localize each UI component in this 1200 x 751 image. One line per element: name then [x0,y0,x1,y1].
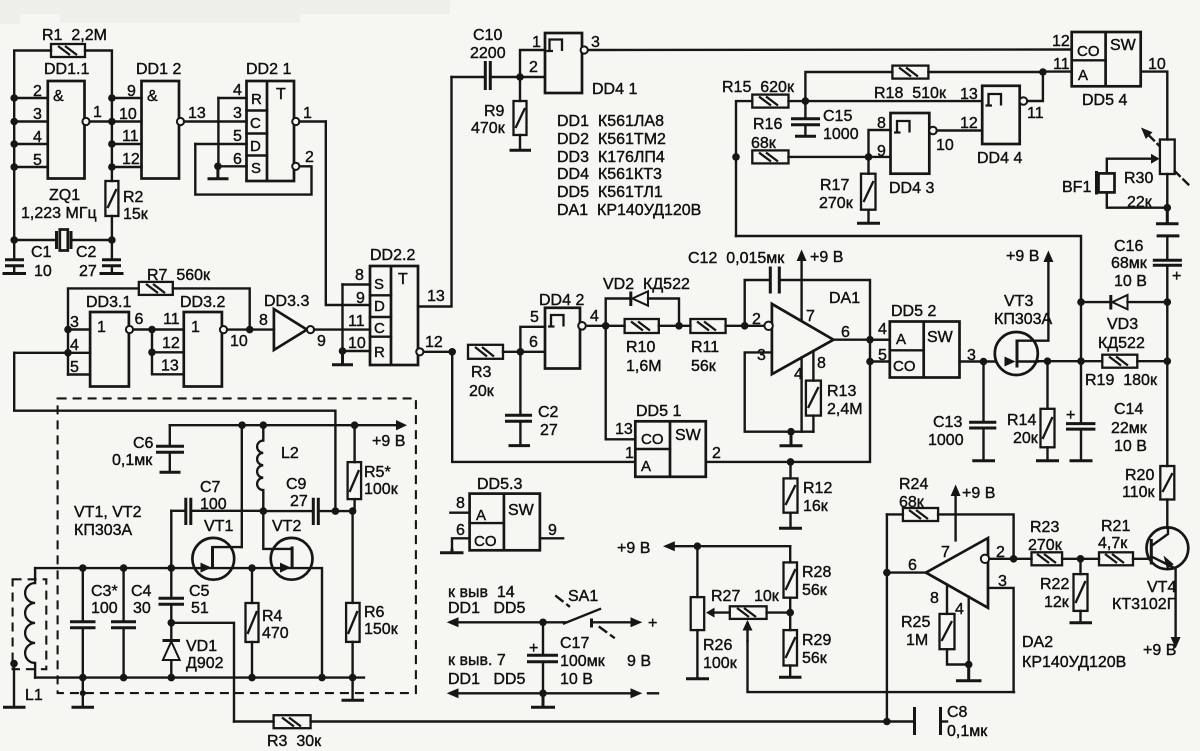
capacitor C4 [111,568,152,678]
svg-text:DD4 2: DD4 2 [539,292,584,309]
capacitor C3* [70,568,118,678]
svg-text:+: + [1172,268,1181,285]
resistor R15 [722,79,795,108]
node R27/R28/R29 [786,609,794,617]
pin 4 output DD4.2 [578,308,624,330]
ground DA2 [956,665,982,681]
svg-text:100: 100 [91,600,118,617]
svg-text:R22: R22 [1040,576,1069,593]
R30 adjust dashed arrow [1141,128,1189,186]
gate DD4.2 [539,292,584,369]
svg-text:9: 9 [877,143,886,160]
svg-text:10: 10 [34,263,52,280]
svg-text:1: 1 [93,104,102,121]
svg-text:к выв 14: к выв 14 [448,584,515,601]
node R15/C15/R18 [802,97,810,105]
svg-text:12: 12 [1052,33,1070,50]
ground DA1 [780,432,803,446]
node C13 top [980,358,988,366]
pin 10 output DD4.3 [929,127,982,154]
svg-text:3: 3 [233,105,242,122]
svg-text:R11: R11 [691,339,719,356]
pin 3 DD2.1 [233,105,242,122]
svg-text:DD5 2: DD5 2 [891,303,936,320]
svg-text:4: 4 [33,129,42,146]
svg-text:+9 В: +9 В [372,433,405,450]
svg-text:10: 10 [1148,56,1166,73]
svg-text:R7 560к: R7 560к [147,267,211,284]
pin 5 DD2.1 [195,128,246,145]
resistor R29 [779,613,831,678]
wire pin6 column [886,514,888,721]
svg-text:R5*: R5* [364,464,391,481]
wire pin4 to pin6 tie DD2.1 [217,98,219,166]
svg-text:12к: 12к [1044,594,1070,611]
svg-text:C14: C14 [1114,401,1143,418]
svg-text:C17: C17 [560,635,589,652]
switch DD5.1 [635,403,706,477]
bottom rail to C8 [311,720,915,722]
svg-text:L1: L1 [25,687,43,704]
node DD3.1 out to DD3.2 inputs [148,326,156,334]
svg-text:9: 9 [127,83,136,100]
pin 3 output DD5.2 [960,347,997,364]
svg-text:1000: 1000 [823,126,859,143]
wire oscillator feedback to DD3.1 [14,353,335,511]
pin 11 output DD4.4 [1020,72,1044,122]
capacitor C1 [3,240,52,280]
node DA2 pin6 [883,569,891,577]
svg-text:9 В: 9 В [627,653,651,670]
pin 8 DD5.3 [450,495,469,513]
wire R10 to R11 [659,325,691,327]
svg-text:КП303А: КП303А [994,311,1053,328]
switch DD5.4 [1072,32,1141,109]
svg-text:+: + [648,615,657,632]
svg-text:1: 1 [532,34,541,51]
svg-text:2,4М: 2,4М [827,401,863,418]
svg-text:КТ3102Г: КТ3102Г [1112,596,1176,613]
node dots DD1.1 inputs [10,94,18,171]
svg-text:SA1: SA1 [568,588,598,605]
potentiometer R27 [706,588,790,619]
gate DD4.1 [545,33,637,98]
capacitor C17 [527,622,651,693]
svg-text:DD1 К561ЛА8: DD1 К561ЛА8 [557,113,664,130]
resistor R2 [105,181,148,223]
node R26 top [694,542,702,550]
wire DA1 pin3 loop [745,352,814,431]
node C3 top [79,564,87,572]
pin 12 DD1.2 [112,151,142,168]
wire pin8 tie DD4.3 [869,130,891,157]
wire +9V to R28 [789,546,791,562]
svg-text:R: R [251,91,262,108]
R27 wiper arrow [743,620,1015,692]
label VT1 VT2 type [74,504,142,539]
op-amp DA2 [908,538,1126,671]
diode VD2 parallel R10 [603,276,690,326]
diode VD1 [163,623,224,678]
svg-text:VT1: VT1 [204,518,233,535]
svg-text:DD2 1: DD2 1 [246,61,291,78]
diode VD3 [1081,295,1167,352]
wire node down to DD5.1 CO [606,326,636,440]
svg-text:VD1: VD1 [186,638,217,655]
svg-text:CO: CO [893,358,916,375]
svg-text:2: 2 [752,311,761,328]
svg-text:2: 2 [529,59,538,76]
svg-text:R25: R25 [901,614,930,631]
node DA1 ground junction [787,428,795,436]
svg-text:9: 9 [356,290,365,307]
wire comparator threshold line [736,236,1081,302]
svg-text:0,1мк: 0,1мк [947,723,988,740]
pin 11 DD2.2 [348,313,365,330]
svg-text:1,223 МГц: 1,223 МГц [21,205,97,222]
svg-text:S: S [251,160,261,177]
capacitor C10 [452,27,521,90]
pin 8 DD2.2 [343,267,371,285]
resistor R1 [42,27,107,57]
capacitor C6 [112,425,184,472]
pin 9 DD1.2 [112,83,142,100]
svg-text:4: 4 [955,601,964,618]
svg-text:11: 11 [122,128,139,145]
svg-text:DD2 К561ТМ2: DD2 К561ТМ2 [557,131,666,148]
svg-text:DA1: DA1 [829,290,860,307]
svg-text:100: 100 [200,496,227,513]
flip-flop DD2.2 [370,247,418,365]
resistor R7 [139,267,211,295]
svg-text:CO: CO [1077,43,1100,60]
resistor R3 30k in bottom rail [234,715,322,750]
svg-text:R17: R17 [820,177,849,194]
svg-text:SW: SW [508,502,535,519]
resistor R4 [246,568,289,678]
svg-text:C9: C9 [286,476,307,493]
wire VD1 node to series R3 rail [171,623,234,722]
pin 1 output DD2.1 [292,105,326,125]
svg-text:10к: 10к [754,588,780,605]
svg-text:8: 8 [355,267,364,284]
svg-text:T: T [398,271,408,288]
svg-text:R30: R30 [1124,170,1153,187]
pin 13 output DD1.2 [177,105,247,125]
svg-text:9: 9 [548,522,557,539]
resistor R17 [819,157,880,223]
wire DD2.1 pin1 down to DD2.2 D [326,122,370,306]
capacitor C14 [1066,361,1148,461]
svg-text:10 В: 10 В [1114,273,1147,290]
pin 10 DD1.2 [112,106,142,123]
svg-text:ZQ1: ZQ1 [49,187,80,204]
capacitor C13 [928,362,996,461]
node crystal left [10,236,18,244]
pin 3 DD1.1 [14,106,48,123]
svg-text:КД522: КД522 [1098,335,1145,352]
svg-text:R: R [374,344,385,361]
DA2 output wire pin2 [989,558,1031,560]
svg-text:DD3.2: DD3.2 [180,294,225,311]
svg-text:13: 13 [188,105,206,122]
capacitor C16 [1111,236,1182,302]
svg-text:C4: C4 [131,583,152,600]
wire C7 left down to gate line [170,511,172,568]
capacitor C2 27 [505,352,559,446]
pin 6 DD5.3 grounded [440,522,470,553]
DA1 inverting input bubble [764,322,772,330]
svg-text:6: 6 [841,324,850,341]
svg-text:5: 5 [233,128,242,145]
svg-text:T: T [276,86,286,103]
node VD2 right [675,322,683,330]
pin 2 DD1.1 [14,83,48,100]
wire BF1 bottom to R30 bottom [1107,192,1168,207]
node S/R tie DD2.2 [339,347,347,355]
ground at DD2.2 R input [332,351,353,365]
svg-text:DD1.1: DD1.1 [44,61,89,78]
svg-text:DD5 К561ТЛ1: DD5 К561ТЛ1 [557,184,663,201]
svg-text:10: 10 [936,137,954,154]
oscillator common bottom rail [35,676,364,678]
svg-text:A: A [1078,67,1088,84]
wire R2 bottom to crystal line [111,216,113,240]
svg-text:VT1, VT2: VT1, VT2 [74,504,142,521]
pin 2 output DD2.1 loop to D [195,144,314,195]
svg-text:5: 5 [530,309,539,326]
svg-text:27: 27 [290,493,308,510]
svg-text:12: 12 [162,335,180,352]
svg-text:27: 27 [540,422,558,439]
resistor R16 [751,116,789,163]
svg-text:470к: 470к [471,120,506,137]
svg-text:1: 1 [303,105,312,122]
svg-text:DD5.3: DD5.3 [477,476,522,493]
+9V feed to divider [617,540,790,557]
svg-text:VT3: VT3 [1004,293,1033,310]
svg-text:C2: C2 [538,404,559,421]
resistor R10 [625,319,662,375]
transistor VT3 [994,248,1053,375]
switch DD5.2 [890,303,960,378]
svg-text:R18 510к: R18 510к [874,85,947,102]
svg-text:VD3: VD3 [1107,316,1138,333]
ground R30 node [1156,208,1179,224]
resistor R19 [1085,355,1158,389]
wire node to DD5.4 pin11 [1043,70,1072,72]
wire R15 right to DD4.4 pin13 [789,100,983,102]
node DD2.2 pin12 junction [448,348,456,356]
svg-text:R19 180к: R19 180к [1085,372,1158,389]
svg-text:1000: 1000 [928,432,964,449]
svg-text:DD5 1: DD5 1 [636,403,681,420]
svg-text:10: 10 [119,106,137,123]
wire tie DD3.2 inputs [152,330,184,375]
svg-text:12: 12 [122,151,140,168]
svg-text:R10: R10 [626,339,655,356]
node R5 top on rail [351,421,359,429]
DA2 inverting input bubble [981,555,989,563]
svg-text:30: 30 [133,600,151,617]
pin 9 DD5.3 [540,522,563,539]
resistor R13 [806,351,863,432]
gate DD3.2 [180,294,225,387]
resistor R14 [1007,362,1059,461]
node DA1 pin2 / C12 [741,322,749,330]
ground at DD2.1 S input [208,166,229,179]
svg-text:2: 2 [33,83,42,100]
svg-text:CO: CO [641,431,664,448]
node dots DD3.1 inputs [64,326,72,357]
svg-text:КР140УД120В: КР140УД120В [1022,654,1126,671]
svg-text:4: 4 [878,321,887,338]
ground C17 [531,693,555,707]
flip-flop DD2.1 [246,61,294,181]
node C17 plus [539,619,547,627]
node VD1 bottom [168,674,176,682]
switch DD5.3 [470,476,540,550]
svg-text:1: 1 [97,319,106,336]
svg-text:1: 1 [625,445,634,462]
switch SA1 dashed handle [556,588,614,638]
node C17 minus [539,690,547,698]
svg-text:10: 10 [348,335,366,352]
svg-text:R20: R20 [1125,467,1154,484]
resistor R18 [805,66,1043,102]
capacitor C7 [171,479,263,525]
svg-text:R15 620к: R15 620к [722,79,795,96]
node C4 top [120,564,128,572]
svg-text:+: + [529,640,538,657]
capacitor C15 [791,101,859,143]
gate DD1.2 [136,61,181,179]
svg-text:DD3 К176ЛП4: DD3 К176ЛП4 [557,149,665,166]
svg-text:+9 В: +9 В [962,485,995,502]
node dots DD1.2 inputs [108,94,116,171]
crystal ZQ1 [14,187,112,251]
svg-text:VD2 КД522: VD2 КД522 [603,276,690,293]
pin 2 DD4.1 [520,59,545,77]
wire R15 left column [736,101,752,236]
pin 11 DD1.2 [112,128,142,145]
gate-source line through VT1 VT2 [35,568,322,678]
svg-text:DD4 1: DD4 1 [592,81,637,98]
svg-text:BF1: BF1 [1062,179,1091,196]
svg-text:S: S [374,276,384,293]
svg-text:DD1 2: DD1 2 [136,61,181,78]
svg-text:R14: R14 [1007,412,1036,429]
node C14 top [1077,357,1085,365]
potentiometer R26 [686,546,738,679]
pin 3 DD3.1 [68,314,90,331]
svg-text:110к: 110к [1122,484,1156,501]
node R6 bottom [349,674,357,682]
pin 10 DD2.2 [343,335,371,352]
+9V rail in oscillator [170,420,407,450]
svg-text:13: 13 [615,421,633,438]
svg-text:D: D [250,138,261,155]
svg-text:DD4 К561КТ3: DD4 К561КТ3 [557,166,662,183]
svg-text:A: A [641,458,651,475]
svg-text:L2: L2 [281,445,299,462]
svg-text:4,7к: 4,7к [1098,535,1128,552]
svg-text:6: 6 [456,522,465,539]
wire pin12 node down and right to DD5.1 A [452,352,635,462]
svg-text:20к: 20к [1013,430,1039,447]
pin 12 stub DD3.2 [152,351,184,353]
svg-text:R23: R23 [1030,519,1059,536]
svg-text:3: 3 [591,34,600,51]
svg-text:68к: 68к [899,494,925,511]
svg-text:8: 8 [456,495,465,512]
transistor VT4 [1112,527,1188,659]
svg-text:100мк: 100мк [560,653,606,670]
resistor R24 feedback [887,476,1014,559]
resistor R11 [690,319,725,375]
capacitor C5 [159,568,210,623]
resistor R6 [346,511,399,677]
node DD3.2 output / R7 [246,326,254,334]
node R4 bottom [248,674,256,682]
svg-text:16к: 16к [803,498,829,515]
svg-text:4: 4 [590,308,599,325]
svg-text:12: 12 [960,115,978,132]
node crystal right [108,236,116,244]
resistor R23 [1028,519,1099,565]
svg-text:R21: R21 [1101,518,1130,535]
svg-text:10: 10 [230,333,248,350]
power wiring text k vyv 14 [448,584,525,617]
svg-text:3: 3 [757,347,766,364]
node R25/pin4 ground [965,661,973,669]
transistor VT2 [263,511,312,580]
svg-text:100к: 100к [364,481,399,498]
parts list text [557,113,701,219]
svg-text:11: 11 [348,313,365,330]
wire R19 right to vertical [1137,360,1167,362]
minus supply line [447,688,658,698]
coil L1 with shield [13,568,47,704]
node R5 bottom / R6 top [349,507,357,515]
pin 1 DD4.1 [520,34,545,77]
svg-text:R13: R13 [827,383,856,400]
node R30/BF1 bottom [1164,204,1172,212]
svg-text:R24: R24 [899,476,928,493]
svg-text:SW: SW [675,427,702,444]
wire output node down to DD5.1 pin2 line [706,340,870,462]
pin 10 output DD3.2 [220,326,274,350]
pin 3 output DD4.1 long line to DD5.4 [581,34,1072,54]
svg-text:2200: 2200 [470,45,506,62]
svg-text:C15: C15 [823,108,852,125]
svg-text:R3: R3 [471,364,492,381]
power wiring text k vyv 7 [448,652,525,688]
svg-text:11: 11 [1027,105,1044,122]
svg-text:C8: C8 [947,704,968,721]
wire R11 to DA1 inverting input [726,325,764,327]
svg-text:C: C [250,115,261,132]
pin 6 DD2.1 [217,151,246,168]
node VD3 right [1164,298,1172,306]
shield ground of L1 [3,660,26,708]
wire VD3 left node down [1080,302,1082,361]
op-amp DA1 [752,290,860,383]
R30 wiper from BF1 [1107,154,1160,174]
svg-text:13: 13 [960,86,978,103]
svg-text:68мк: 68мк [1111,255,1148,272]
svg-text:8: 8 [259,312,268,329]
